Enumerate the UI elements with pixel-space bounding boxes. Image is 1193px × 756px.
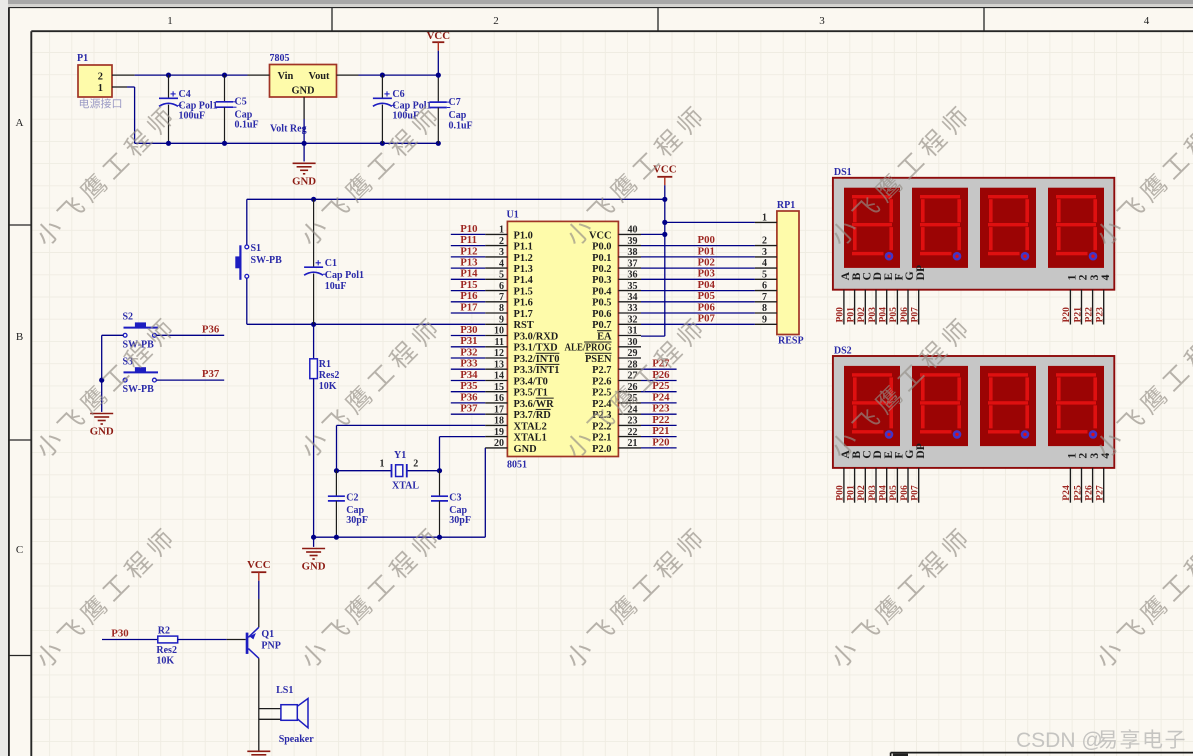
svg-text:10K: 10K: [156, 656, 174, 667]
capacitor C1: [304, 199, 364, 324]
U1 pin 10 (P3.0/RXD): [485, 326, 558, 343]
svg-text:P0.2: P0.2: [592, 264, 611, 275]
wire S2 left: [102, 335, 124, 380]
svg-text:GND: GND: [292, 175, 316, 187]
DS2 pin 3: [1083, 468, 1094, 503]
DS2 pin F: [888, 468, 899, 503]
wire P27: [641, 368, 677, 370]
wire to ground: [101, 380, 103, 412]
svg-text:P12: P12: [460, 245, 477, 257]
svg-text:DS2: DS2: [834, 345, 852, 356]
capacitor C2: [328, 471, 368, 538]
junction: [166, 73, 171, 78]
U1 pin 22 (P2.1): [592, 427, 641, 444]
svg-text:9: 9: [499, 315, 504, 326]
svg-text:15: 15: [494, 382, 504, 393]
svg-text:22: 22: [628, 427, 638, 438]
wire P33: [451, 368, 485, 370]
svg-text:P26: P26: [1083, 485, 1094, 501]
svg-text:S1: S1: [251, 243, 262, 254]
transistor Q1 PNP: [246, 599, 281, 658]
svg-text:P27: P27: [1095, 485, 1106, 501]
svg-text:3: 3: [762, 247, 767, 258]
wire P12: [451, 256, 485, 258]
svg-text:16: 16: [494, 393, 504, 404]
U1 pin 2 (P1.1): [485, 236, 533, 253]
svg-text:P03: P03: [867, 307, 878, 323]
svg-text:Cap Pol1: Cap Pol1: [325, 270, 364, 281]
wire P24: [641, 402, 677, 404]
wire P14: [451, 278, 485, 280]
svg-text:5: 5: [499, 270, 504, 281]
U1 pin 12 (P3.2/INT0): [485, 348, 559, 365]
RP1 pin 6: [755, 281, 777, 292]
wire P02: [641, 267, 755, 269]
DS1 pin G: [899, 290, 910, 325]
resistor pack RP1: [777, 200, 804, 347]
wire P01: [641, 256, 755, 258]
svg-text:P02: P02: [856, 307, 867, 323]
junction: [334, 468, 339, 473]
wire P03: [641, 278, 755, 280]
7805 Vin pin: [248, 74, 270, 76]
DS1 pin E: [878, 290, 889, 325]
svg-text:9: 9: [762, 314, 767, 325]
DS2 pin DP: [910, 468, 921, 503]
wire VCC rail to RP1 pin1: [665, 221, 755, 223]
wire S1 to reset rail: [246, 278, 248, 324]
svg-text:17: 17: [494, 404, 504, 415]
svg-text:VCC: VCC: [589, 230, 612, 241]
zone labels: [16, 15, 1150, 556]
svg-text:P3.6/WR: P3.6/WR: [514, 399, 555, 410]
svg-text:C1: C1: [325, 258, 337, 269]
svg-text:P3.0/RXD: P3.0/RXD: [514, 331, 559, 342]
svg-text:GND: GND: [514, 444, 537, 455]
svg-text:23: 23: [628, 416, 638, 427]
junction: [380, 141, 385, 146]
switch S2: [123, 312, 159, 351]
7805 GND pin: [303, 97, 305, 119]
DS1 pin DP: [910, 290, 921, 325]
junction: [311, 535, 316, 540]
svg-text:30pF: 30pF: [346, 515, 368, 526]
junction: [436, 73, 441, 78]
svg-text:B: B: [16, 331, 23, 343]
U1 pin 19 (XTAL1): [485, 427, 547, 444]
wire Vout rail: [359, 74, 439, 76]
svg-text:P32: P32: [460, 346, 477, 358]
svg-text:P0.0: P0.0: [592, 242, 611, 253]
U1 pin 37 (P0.2): [592, 258, 641, 275]
U1 pin 40 (VCC): [589, 225, 641, 242]
bottom rail of supply filter: [135, 142, 439, 144]
wire P25: [641, 391, 677, 393]
wire P17: [451, 312, 485, 314]
wire P26: [641, 380, 677, 382]
svg-text:P17: P17: [460, 301, 478, 313]
U1 pin 34 (P0.5): [592, 292, 641, 309]
display DS1: [833, 167, 1114, 290]
wire reset top rail: [247, 199, 665, 245]
svg-text:32: 32: [628, 315, 638, 326]
svg-text:18: 18: [494, 416, 504, 427]
DS2 pin A: [835, 468, 846, 503]
svg-text:3: 3: [499, 247, 504, 258]
svg-text:P05: P05: [888, 307, 899, 323]
U1 pin 16 (P3.6/WR): [485, 393, 554, 410]
wire P13: [451, 267, 485, 269]
DS2 pin C: [856, 468, 867, 503]
U1 pin 33 (P0.6): [592, 303, 641, 320]
svg-text:XTAL: XTAL: [392, 480, 419, 491]
svg-text:GND: GND: [90, 426, 114, 438]
junction: [302, 141, 307, 146]
wire P23: [641, 413, 677, 415]
svg-text:P0.7: P0.7: [592, 320, 611, 331]
svg-text:P2.5: P2.5: [592, 388, 611, 399]
wire P34: [451, 380, 485, 382]
RP1 pin 1: [755, 212, 777, 223]
speaker LS1: [259, 685, 314, 745]
wire P04: [641, 290, 755, 292]
wire P30: [451, 335, 485, 337]
wire P16: [451, 301, 485, 303]
svg-text:P07: P07: [910, 485, 921, 501]
svg-text:2: 2: [499, 236, 504, 247]
svg-text:28: 28: [628, 359, 638, 370]
svg-text:Vin: Vin: [278, 71, 294, 82]
svg-text:31: 31: [628, 326, 638, 337]
svg-text:0.1uF: 0.1uF: [449, 120, 473, 131]
svg-text:C2: C2: [346, 492, 358, 503]
svg-text:C6: C6: [392, 89, 404, 100]
svg-text:P37: P37: [460, 403, 478, 415]
wire to ground: [313, 537, 315, 547]
svg-text:P01: P01: [698, 245, 715, 257]
svg-text:P36: P36: [460, 391, 478, 403]
U1 pin 8 (P1.7): [485, 303, 533, 320]
svg-text:P06: P06: [899, 307, 910, 323]
wire EA to VCC rail: [641, 335, 665, 337]
svg-text:10: 10: [494, 326, 504, 337]
svg-text:5: 5: [762, 269, 767, 280]
svg-text:DP: DP: [914, 265, 927, 280]
7805 Vout pin: [337, 74, 359, 76]
U1 pin 9 (RST): [485, 315, 534, 332]
ground GND (switches): [90, 414, 114, 438]
svg-text:1: 1: [380, 459, 385, 470]
svg-text:P1.4: P1.4: [514, 275, 533, 286]
wire P1.1 down to bottom rail: [127, 87, 135, 143]
title block edge: [891, 753, 1193, 756]
svg-text:0.1uF: 0.1uF: [235, 120, 259, 131]
svg-text:2: 2: [98, 72, 103, 83]
RP1 pin 8: [755, 303, 777, 314]
svg-text:P14: P14: [460, 268, 478, 280]
junction: [437, 468, 442, 473]
wire XTAL2 to Y1.1: [337, 425, 486, 470]
junction: [222, 141, 227, 146]
DS2 pin B: [845, 468, 856, 503]
svg-text:RESP: RESP: [778, 336, 804, 347]
DS1 pin 3: [1083, 290, 1094, 325]
svg-text:ALE/PROG: ALE/PROG: [565, 343, 612, 354]
svg-text:P06: P06: [698, 301, 716, 313]
P1 pin 2: [112, 74, 135, 76]
svg-text:P06: P06: [899, 485, 910, 501]
svg-text:P3.7/RD: P3.7/RD: [514, 410, 551, 421]
svg-text:3: 3: [819, 15, 825, 27]
svg-text:C: C: [16, 544, 23, 556]
switch S1: [235, 243, 282, 280]
svg-text:P2.6: P2.6: [592, 376, 611, 387]
svg-text:Y1: Y1: [394, 450, 406, 461]
svg-text:P1.7: P1.7: [514, 309, 533, 320]
svg-text:Res2: Res2: [319, 370, 340, 381]
svg-text:1: 1: [499, 225, 504, 236]
svg-text:8: 8: [762, 303, 767, 314]
svg-text:P01: P01: [845, 485, 856, 501]
wire U1 VCC pin to rail: [641, 233, 665, 235]
svg-text:30pF: 30pF: [449, 515, 471, 526]
P1 pin 1: [112, 86, 127, 88]
wire S2 to P36: [156, 334, 224, 336]
svg-text:A: A: [16, 117, 24, 129]
junction: [311, 322, 316, 327]
svg-text:LS1: LS1: [276, 685, 293, 696]
svg-text:P30: P30: [460, 324, 477, 336]
svg-text:P30: P30: [111, 628, 128, 640]
DS2 pin E: [878, 468, 889, 503]
svg-text:4: 4: [499, 258, 504, 269]
resistor R1: [310, 324, 340, 537]
svg-text:P03: P03: [867, 485, 878, 501]
svg-text:P03: P03: [698, 268, 716, 280]
wire R2 to Q1 base: [178, 639, 246, 641]
power port VCC (top): [427, 30, 450, 75]
svg-text:P05: P05: [698, 290, 715, 302]
regulator 7805: [270, 53, 337, 135]
svg-text:CSDN @: CSDN @: [1016, 729, 1103, 752]
DS1 pin 2: [1072, 290, 1083, 325]
DS2 pin 4: [1095, 468, 1106, 503]
svg-text:4: 4: [1099, 274, 1112, 280]
U1 pin 25 (P2.4): [592, 393, 641, 410]
U1 pin 28 (P2.7): [592, 359, 641, 376]
svg-text:C3: C3: [449, 492, 461, 503]
power port VCC (U1): [653, 164, 676, 337]
svg-text:PNP: PNP: [261, 640, 280, 651]
display DS2: [833, 345, 1114, 468]
crystal Y1: [337, 450, 440, 491]
svg-text:1: 1: [167, 15, 173, 27]
svg-text:P16: P16: [460, 290, 478, 302]
svg-text:P1.6: P1.6: [514, 298, 533, 309]
svg-text:P2.4: P2.4: [592, 399, 611, 410]
svg-text:P07: P07: [910, 307, 921, 323]
svg-text:P0.3: P0.3: [592, 275, 611, 286]
svg-text:P0.4: P0.4: [592, 287, 611, 298]
wire P37: [451, 413, 485, 415]
svg-text:P20: P20: [1061, 307, 1072, 323]
wire Q1 collector to speaker: [258, 658, 260, 751]
svg-text:P02: P02: [698, 257, 715, 269]
DS1 pin B: [845, 290, 856, 325]
svg-text:P00: P00: [835, 485, 846, 501]
capacitor C4: [159, 75, 218, 143]
U1 pin 15 (P3.5/T1): [485, 382, 548, 399]
svg-text:P02: P02: [856, 485, 867, 501]
wire XTAL1 to Y1.2: [440, 437, 486, 471]
wire P05: [641, 301, 755, 303]
svg-text:XTAL1: XTAL1: [514, 433, 547, 444]
svg-text:P2.0: P2.0: [592, 444, 611, 455]
svg-text:P1: P1: [77, 53, 88, 64]
wire P07: [641, 323, 755, 325]
svg-text:4: 4: [1144, 15, 1150, 27]
U1 pin 27 (P2.6): [592, 371, 641, 388]
svg-text:36: 36: [628, 270, 638, 281]
svg-text:P25: P25: [1072, 485, 1083, 501]
junction: [662, 197, 667, 202]
svg-text:P3.1/TXD: P3.1/TXD: [514, 343, 558, 354]
U1 pin 30 (ALE/PROG): [565, 337, 642, 354]
svg-text:29: 29: [628, 348, 638, 359]
svg-text:30: 30: [628, 337, 638, 348]
mcu U1 body: [507, 210, 619, 471]
svg-text:P13: P13: [460, 257, 478, 269]
svg-text:19: 19: [494, 427, 504, 438]
DS1 pin F: [888, 290, 899, 325]
capacitor C3: [431, 471, 471, 538]
svg-text:35: 35: [628, 281, 638, 292]
wire P31: [451, 346, 485, 348]
svg-text:P3.3/INT1: P3.3/INT1: [514, 365, 560, 376]
svg-text:P01: P01: [845, 307, 856, 323]
capacitor C7: [430, 75, 473, 143]
svg-text:P11: P11: [460, 234, 477, 246]
svg-text:10K: 10K: [319, 381, 337, 392]
resistor R2: [156, 625, 177, 666]
svg-text:P0.6: P0.6: [592, 309, 611, 320]
wire P10: [451, 233, 485, 235]
svg-text:10uF: 10uF: [325, 281, 347, 292]
svg-text:Volt Reg: Volt Reg: [270, 124, 307, 135]
U1 pin 6 (P1.5): [485, 281, 533, 298]
svg-text:P1.5: P1.5: [514, 287, 533, 298]
svg-text:12: 12: [494, 348, 504, 359]
svg-text:P2.7: P2.7: [592, 365, 611, 376]
svg-text:4: 4: [762, 258, 767, 269]
wire P21: [641, 436, 677, 438]
junction: [662, 220, 667, 225]
junction: [166, 141, 171, 146]
DS1 pin C: [856, 290, 867, 325]
DS1 pin 1: [1061, 290, 1072, 325]
svg-text:2: 2: [762, 236, 767, 247]
wire P32: [451, 357, 485, 359]
svg-text:P21: P21: [652, 425, 669, 437]
svg-text:GND: GND: [291, 86, 314, 97]
svg-text:Vout: Vout: [309, 71, 331, 82]
svg-text:P23: P23: [1095, 307, 1106, 323]
wire reset rail to RST: [247, 323, 485, 325]
svg-text:DP: DP: [914, 443, 927, 458]
junction: [222, 73, 227, 78]
U1 pin 11 (P3.1/TXD): [485, 337, 557, 354]
svg-text:6: 6: [499, 281, 504, 292]
wire P20: [641, 447, 677, 449]
svg-text:P37: P37: [202, 368, 220, 380]
svg-text:P3.4/T0: P3.4/T0: [514, 376, 548, 387]
svg-text:7: 7: [762, 292, 767, 303]
svg-text:SW-PB: SW-PB: [251, 255, 283, 266]
U1 pin 7 (P1.6): [485, 292, 533, 309]
svg-text:13: 13: [494, 359, 504, 370]
svg-text:P15: P15: [460, 279, 477, 291]
svg-text:34: 34: [628, 292, 638, 303]
svg-text:P34: P34: [460, 369, 478, 381]
svg-text:SW-PB: SW-PB: [123, 384, 155, 395]
ground GND (7805): [292, 163, 316, 187]
U1 pin 1 (P1.0): [485, 225, 533, 242]
svg-text:R2: R2: [158, 625, 170, 636]
svg-text:P3.2/INT0: P3.2/INT0: [514, 354, 560, 365]
svg-text:100uF: 100uF: [179, 111, 206, 122]
svg-text:GND: GND: [302, 561, 326, 573]
svg-text:P1.0: P1.0: [514, 230, 533, 241]
DS1 pin D: [867, 290, 878, 325]
RP1 pin 2: [755, 236, 777, 247]
ground GND (xtal): [302, 549, 326, 573]
svg-text:P24: P24: [1061, 485, 1072, 501]
svg-text:2: 2: [413, 459, 418, 470]
wire S3 to P37: [156, 379, 224, 381]
junction: [380, 73, 385, 78]
svg-text:P1.1: P1.1: [514, 242, 533, 253]
svg-text:39: 39: [628, 236, 638, 247]
wire xtal ground rail: [314, 536, 486, 538]
U1 pin 36 (P0.3): [592, 270, 641, 287]
RP1 pin 9: [755, 314, 777, 325]
svg-text:20: 20: [494, 438, 504, 449]
wire P36: [451, 402, 485, 404]
svg-text:1: 1: [98, 83, 103, 94]
svg-text:14: 14: [494, 371, 504, 382]
svg-text:P23: P23: [652, 403, 670, 415]
wire P06: [641, 312, 755, 314]
svg-text:P04: P04: [698, 279, 716, 291]
U1 pin 17 (P3.7/RD): [485, 404, 551, 421]
watermark 小飞鹰工程师 tiled: [32, 105, 1193, 671]
junction: [334, 535, 339, 540]
svg-text:P10: P10: [460, 223, 477, 235]
svg-text:4: 4: [1099, 453, 1112, 459]
svg-text:U1: U1: [507, 210, 519, 221]
svg-text:P1.2: P1.2: [514, 253, 533, 264]
svg-text:P33: P33: [460, 358, 478, 370]
svg-text:P00: P00: [835, 307, 846, 323]
svg-text:P22: P22: [1083, 307, 1094, 323]
svg-text:P3.5/T1: P3.5/T1: [514, 388, 548, 399]
RP1 pin 4: [755, 258, 777, 269]
U1 pin 20 (GND): [485, 438, 536, 455]
power port VCC (Q1): [247, 559, 270, 599]
svg-text:P04: P04: [878, 307, 889, 323]
svg-text:P0.1: P0.1: [592, 253, 611, 264]
wire P11: [451, 245, 485, 247]
